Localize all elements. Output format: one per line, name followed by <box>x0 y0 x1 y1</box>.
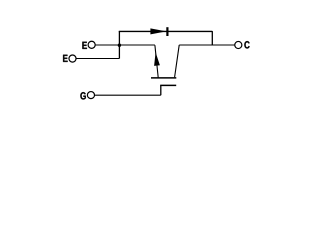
terminal label C <box>244 41 249 48</box>
junction dot node E <box>118 44 121 47</box>
transistor Q1 gate bar <box>160 84 176 86</box>
transistor Q1 emitter arrow <box>154 52 160 66</box>
wire vertical E node to diode rail <box>118 31 120 58</box>
wire gate bar down <box>160 85 162 95</box>
transistor Q1 body bar <box>151 77 176 79</box>
transistor Q1 emitter slant <box>155 45 158 77</box>
wire gate to G <box>95 94 161 96</box>
wire E2 to node <box>76 58 119 60</box>
wire collector to C <box>179 44 234 46</box>
diode D1 cathode bar <box>166 27 168 36</box>
wire E1 to emitter <box>95 44 154 46</box>
transistor Q1 collector slant <box>175 45 180 77</box>
diode D1 anode triangle <box>150 28 166 34</box>
wire vertical rail to collector <box>211 31 213 45</box>
terminal circle E2 <box>69 55 76 62</box>
terminal label E1 <box>82 42 86 49</box>
terminal label G <box>80 92 85 99</box>
terminal circle G <box>87 92 94 99</box>
terminal label E2 <box>63 55 67 62</box>
terminal circle E1 <box>88 41 95 48</box>
terminal circle C <box>235 41 242 48</box>
wire diode rail top <box>119 30 213 32</box>
